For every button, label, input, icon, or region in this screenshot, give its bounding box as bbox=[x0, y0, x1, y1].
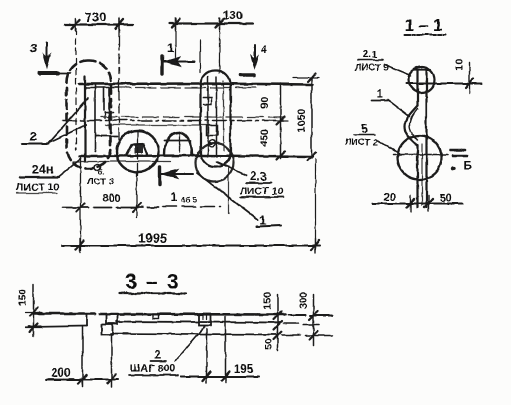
svg-text:150: 150 bbox=[16, 288, 28, 306]
witness 800 right bbox=[135, 173, 137, 217]
svg-text:б.: б. bbox=[98, 167, 105, 176]
right dimension 150/50 (3-3) bbox=[273, 294, 281, 350]
arch 2 bbox=[164, 132, 191, 154]
svg-text:4: 4 bbox=[260, 43, 267, 55]
svg-text:300: 300 bbox=[297, 291, 309, 309]
svg-text:1995: 1995 bbox=[138, 230, 167, 245]
witness middle right stadium bbox=[227, 166, 229, 213]
witness line 730 right bbox=[118, 28, 120, 143]
dimension 1050 vertical bbox=[292, 73, 318, 160]
svg-text:195: 195 bbox=[233, 363, 253, 375]
label 24н bbox=[19, 158, 80, 177]
beam middle line bbox=[116, 321, 280, 322]
plate inner left line bbox=[94, 85, 96, 151]
svg-text:3: 3 bbox=[29, 40, 36, 55]
stud C right bbox=[198, 313, 210, 325]
dimension 10 line bbox=[406, 62, 481, 93]
svg-text:1: 1 bbox=[376, 86, 383, 100]
label 2 with leaders bbox=[21, 97, 88, 143]
plate center second line bbox=[100, 116, 283, 118]
beam left step bbox=[28, 314, 86, 326]
label 2.3 / ЛИСТ 10 bbox=[216, 161, 283, 197]
svg-text:90: 90 bbox=[258, 96, 270, 108]
dimension 130 line bbox=[169, 17, 252, 29]
beam bottom line dashes bbox=[281, 334, 332, 337]
dimension 200 (3-3) bbox=[45, 326, 118, 386]
center line through big circle bbox=[393, 153, 447, 155]
label 1 right with leader bbox=[196, 172, 280, 227]
section marker 3 left bbox=[29, 40, 70, 73]
svg-text:200: 200 bbox=[50, 367, 69, 379]
plate left edge bbox=[83, 76, 85, 160]
plate bottom edge bbox=[79, 155, 312, 156]
svg-text:10: 10 bbox=[453, 58, 465, 70]
svg-text:2: 2 bbox=[29, 128, 36, 143]
witness 800 left / 1995 left bbox=[79, 156, 81, 250]
svg-text:ЛИСТ 9: ЛИСТ 9 bbox=[354, 62, 388, 73]
anchor rod 1-1 bbox=[404, 67, 430, 207]
witness 1995 right bbox=[314, 158, 316, 250]
svg-text:1 – 1: 1 – 1 bbox=[404, 15, 442, 34]
plate top edge bbox=[79, 83, 312, 84]
far right dimension 300 (3-3) bbox=[309, 294, 317, 345]
section marker 1 top bbox=[162, 40, 194, 73]
witness line 130 right bbox=[218, 27, 220, 72]
stud B bbox=[101, 324, 112, 334]
label 2.1 / ЛИСТ 9 bbox=[354, 48, 410, 75]
svg-text:2.3: 2.3 bbox=[250, 171, 266, 183]
plate top edge second dashed line bbox=[110, 86, 255, 88]
dimension 20/50 bottom 1-1 bbox=[372, 195, 462, 211]
svg-text:Б: Б bbox=[463, 158, 472, 172]
beam bottom line bbox=[110, 333, 278, 334]
section marker 1 bottom bbox=[159, 167, 197, 204]
svg-text:20: 20 bbox=[383, 191, 395, 203]
dimension 90/450 vertical bbox=[273, 83, 287, 159]
top circle 1-1 bbox=[408, 66, 434, 92]
svg-text:150: 150 bbox=[261, 291, 273, 309]
svg-text:50: 50 bbox=[262, 338, 274, 350]
svg-text:730: 730 bbox=[84, 9, 106, 24]
title 3-3 bbox=[119, 270, 185, 293]
svg-text:ЛИСТ 2: ЛИСТ 2 bbox=[344, 137, 378, 148]
svg-text:4б 5: 4б 5 bbox=[180, 195, 197, 204]
label 2 ШАГ 800 bbox=[128, 326, 204, 375]
big weld circle 1-1 bbox=[397, 135, 441, 179]
svg-text:130: 130 bbox=[222, 8, 242, 22]
svg-text:ЛИСТ 10: ЛИСТ 10 bbox=[239, 185, 282, 197]
plate center line bbox=[62, 119, 284, 121]
middle tick stud bbox=[152, 313, 158, 318]
svg-text:450: 450 bbox=[258, 128, 270, 146]
left stadium outline (dashed) bbox=[66, 60, 110, 168]
dimension 730 line bbox=[64, 18, 132, 30]
svg-text:1: 1 bbox=[170, 189, 177, 203]
marker Б right bbox=[450, 150, 472, 173]
plate middle third line bbox=[105, 124, 210, 126]
right stadium outline bbox=[200, 70, 230, 166]
svg-text:3 – 3: 3 – 3 bbox=[125, 270, 179, 293]
svg-text:1: 1 bbox=[166, 40, 173, 55]
beam top line dashes right bbox=[288, 314, 332, 317]
svg-text:2.1: 2.1 bbox=[363, 48, 378, 60]
witness line 730 left bbox=[75, 28, 77, 150]
channel bracket left bbox=[95, 112, 117, 136]
svg-text:5: 5 bbox=[361, 121, 368, 135]
witness line 130 left bbox=[174, 27, 176, 58]
hat circle 1 bbox=[116, 130, 158, 179]
svg-text:ШАГ 800: ШАГ 800 bbox=[130, 362, 175, 374]
beam top line bbox=[33, 313, 285, 314]
title 1-1 bbox=[404, 15, 445, 34]
witness line right-stadium-left bbox=[199, 40, 201, 72]
dimension 195 (3-3) bbox=[180, 316, 258, 382]
svg-text:ЛИСТ 10: ЛИСТ 10 bbox=[15, 181, 58, 193]
beam middle line dashes bbox=[283, 323, 318, 324]
inner detail top-left box bbox=[85, 87, 118, 128]
section marker 4 top-right bbox=[240, 43, 267, 75]
dimension 800 line bbox=[62, 203, 220, 211]
svg-text:2: 2 bbox=[154, 347, 161, 361]
svg-text:1050: 1050 bbox=[295, 108, 307, 132]
dimension 1995 bbox=[62, 238, 320, 252]
svg-text:50: 50 bbox=[439, 192, 451, 204]
weld dot left-bottom bbox=[94, 164, 100, 170]
plate bottom edge second line bbox=[72, 160, 170, 162]
label 5 / ЛИСТ 2 bbox=[344, 121, 399, 153]
weld circle right bbox=[195, 143, 233, 181]
svg-text:800: 800 bbox=[102, 192, 120, 204]
stud A bbox=[106, 314, 117, 323]
svg-text:24н: 24н bbox=[31, 161, 53, 176]
label 1 (section 1-1) bbox=[371, 86, 409, 116]
right stadium inner lines bbox=[203, 76, 223, 156]
left dimension 150 (3-3) bbox=[25, 284, 41, 336]
svg-text:ЛСТ 3: ЛСТ 3 bbox=[86, 176, 113, 187]
